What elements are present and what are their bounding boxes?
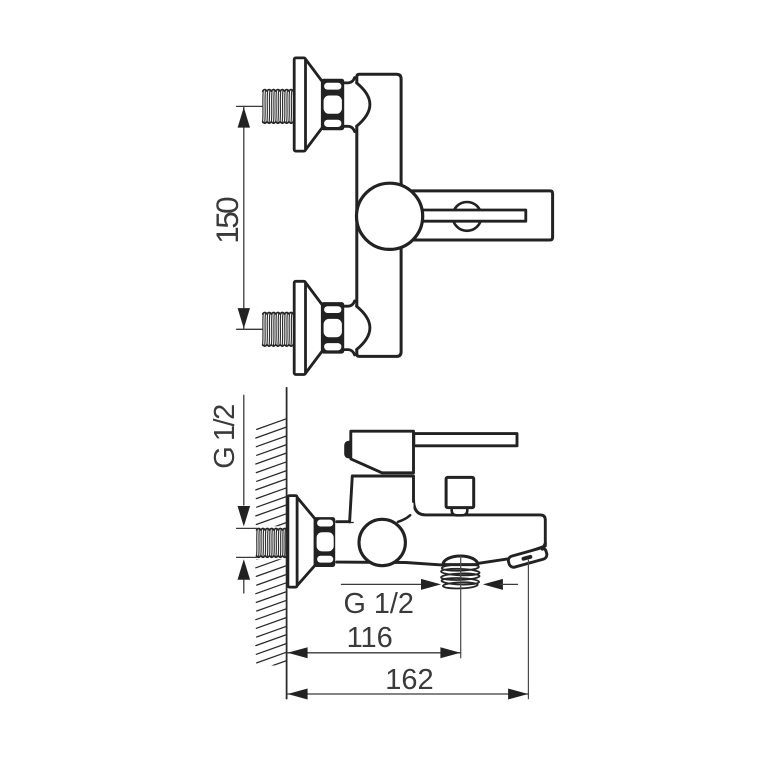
- side body outline: [337, 500, 546, 565]
- dim G1/2 vertical (left): upper arrow: [243, 395, 245, 505]
- svg-text:116: 116: [347, 622, 393, 654]
- hub (lever base): [351, 431, 414, 473]
- thread pipe top connector: [263, 90, 295, 124]
- dim G1/2 horizontal at outlet: [342, 583, 425, 585]
- eccentric bullet (top connector) white mask: [353, 83, 370, 126]
- wall hatch: [256, 419, 287, 672]
- eccentric bullet (bottom connector) white mask: [353, 306, 370, 349]
- bottom connector: escutcheon plate: [294, 281, 305, 374]
- wall line: [286, 388, 288, 699]
- handle: lever bar: [412, 210, 526, 221]
- dim 150: arrows: [238, 107, 250, 127]
- svg-text:162: 162: [385, 664, 433, 696]
- bottom connector: cone: [306, 283, 322, 304]
- svg-text:G 1/2: G 1/2: [209, 405, 241, 469]
- top connector: escutcheon plate: [294, 58, 305, 151]
- collar lips top connector: [344, 78, 355, 83]
- handle: small pivot circle: [453, 202, 482, 231]
- dim 116: [287, 652, 460, 654]
- neck outline: [350, 476, 414, 522]
- eccentric bullet arc (top connector): [357, 83, 370, 126]
- ticks at side thread: [237, 527, 257, 529]
- side cartridge circle: [359, 519, 405, 565]
- svg-text:150: 150: [209, 197, 245, 244]
- top connector: cone: [306, 60, 322, 81]
- lever butt blob: [344, 441, 354, 459]
- side connector: cone: [297, 498, 315, 519]
- shower outlet dome: [443, 556, 478, 565]
- lever bar (side): [414, 434, 517, 446]
- side tube top/bottom lines: [337, 520, 353, 523]
- aerator: [507, 547, 548, 568]
- dashed hidden arc: [398, 512, 413, 522]
- nub between body edge and aerator: [542, 544, 545, 550]
- side thread pipe: [256, 528, 287, 557]
- thread pipe bottom connector: [263, 312, 295, 346]
- extension line from shower thread: [460, 557, 462, 658]
- side connector: hex nut: [314, 517, 336, 567]
- dim 150: extension ticks: [237, 105, 263, 107]
- eccentric bullet arc (bottom connector): [357, 306, 370, 349]
- top connector: hex nut: [321, 79, 344, 131]
- bottom connector: hex nut: [321, 302, 344, 354]
- diverter knob neck: [452, 508, 468, 516]
- cartridge big circle: [357, 183, 423, 249]
- extension line from aerator: [527, 560, 529, 698]
- dim 162: [287, 693, 528, 695]
- lower arrow: [238, 559, 251, 580]
- neck (handle base cylinder) fill: [350, 476, 414, 522]
- shower outlet thread rings: [441, 564, 480, 589]
- body + handle merged outline: [357, 74, 553, 356]
- side connector: escutcheon plate: [288, 496, 297, 587]
- diverter knob: [446, 477, 474, 507]
- dim 150: line: [243, 106, 245, 329]
- svg-text:G 1/2: G 1/2: [344, 588, 414, 620]
- collar lips bottom connector: [344, 301, 355, 306]
